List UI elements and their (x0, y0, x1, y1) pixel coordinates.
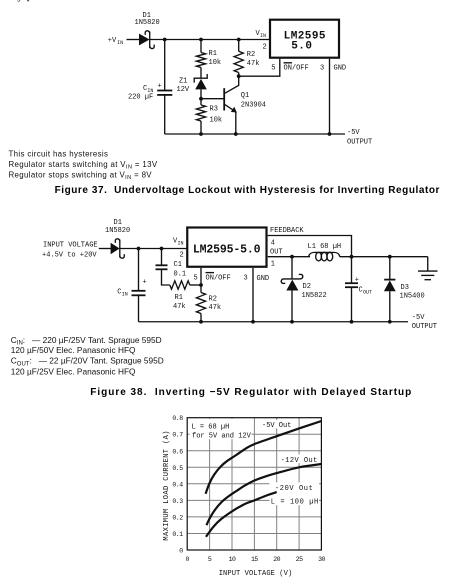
node Z1/R3/base junction (199, 97, 203, 101)
svg-text:-5V: -5V (347, 129, 360, 137)
transistor Q1 2N3904 (224, 76, 239, 134)
svg-text:1N5820: 1N5820 (105, 227, 130, 235)
wire CIN top lead (138, 249, 140, 291)
diode D3 1N5400 (384, 257, 396, 322)
svg-text:INPUT VOLTAGE: INPUT VOLTAGE (43, 241, 98, 249)
curve -20V Out (206, 492, 277, 537)
svg-text:ON/OFF: ON/OFF (284, 65, 309, 73)
node junction CIN top (163, 38, 167, 42)
wire C1 top lead (161, 249, 163, 266)
wire GND pin to bottom rail (252, 268, 254, 322)
node +VIN input label (108, 37, 123, 46)
wire C1 to R1 (162, 269, 170, 285)
wire bottom rail fig38 (139, 321, 409, 323)
svg-text:MAXIMUM LOAD CURRENT (A): MAXIMUM LOAD CURRENT (A) (163, 430, 171, 540)
wire base of Q1 (201, 98, 224, 100)
svg-text:1N5400: 1N5400 (400, 292, 425, 300)
svg-text:-5V Out: -5V Out (262, 422, 291, 430)
svg-text:L = 68 µH: L = 68 µH (192, 424, 230, 432)
capacitor CIN plates (157, 91, 172, 95)
svg-text:30: 30 (318, 556, 325, 563)
node D3 rail junction (388, 320, 392, 324)
svg-text:INPUT VOLTAGE (V): INPUT VOLTAGE (V) (219, 570, 293, 578)
diode D2 1N5822 schottky (281, 257, 303, 322)
svg-text:D3: D3 (401, 284, 409, 292)
node D2 rail junction (290, 320, 294, 324)
label COUT (359, 286, 373, 295)
inductor L1 68uH (309, 252, 340, 261)
op-amp U1 regulator LM2595 box (270, 20, 339, 58)
resistor R2 47k (234, 51, 243, 72)
svg-text:OUTPUT: OUTPUT (347, 139, 372, 147)
ground symbol (418, 257, 438, 280)
wire L1 to ground arm (340, 256, 428, 258)
clipped text remnant at top edge (0, 0, 29, 2)
svg-text:OUT: OUT (363, 289, 372, 295)
wire D1 to U2 VIN (120, 248, 187, 250)
svg-text:LM2595-5.0: LM2595-5.0 (193, 244, 261, 257)
node R1/R2/pin5 junction (199, 283, 203, 287)
svg-text:R2: R2 (209, 295, 217, 303)
svg-text:10k: 10k (209, 59, 222, 67)
svg-text:4: 4 (271, 239, 275, 247)
svg-text:15: 15 (251, 556, 258, 563)
capacitor C1 plates (156, 265, 168, 269)
svg-text:2N3904: 2N3904 (241, 102, 266, 110)
svg-text:25: 25 (296, 556, 303, 563)
legend L = 68 uH (192, 424, 252, 441)
wire top rail D1 to U1 (150, 39, 270, 41)
graph x axis labels (185, 556, 325, 563)
svg-text:47k: 47k (173, 303, 186, 311)
svg-text:0: 0 (185, 556, 189, 563)
svg-text:1N5822: 1N5822 (302, 292, 327, 300)
svg-text:-5V: -5V (412, 314, 425, 322)
svg-text:IN: IN (260, 33, 266, 39)
svg-text:Z1: Z1 (179, 77, 187, 85)
svg-text:0.5: 0.5 (172, 465, 183, 472)
wire CIN bottom lead (164, 95, 166, 134)
graph y axis labels (172, 415, 183, 554)
svg-text:3: 3 (244, 274, 248, 282)
label VIN pin (256, 30, 267, 39)
svg-text:47k: 47k (247, 60, 260, 68)
svg-text:0.8: 0.8 (172, 415, 183, 422)
wire feedback (268, 236, 352, 257)
node R3 rail junction (199, 132, 203, 136)
svg-text:+: + (355, 276, 359, 284)
svg-text:+V: +V (108, 37, 117, 45)
svg-text:10: 10 (229, 556, 236, 563)
svg-text:5.0: 5.0 (291, 41, 312, 53)
resistor R2 47k (196, 285, 205, 322)
svg-text:-12V Out: -12V Out (281, 457, 318, 465)
resistor R3 10k (196, 99, 205, 134)
svg-text:10k: 10k (210, 117, 223, 125)
svg-text:0.2: 0.2 (172, 514, 183, 521)
wire pin5 stub (200, 268, 202, 285)
svg-text:120 µF/50V Elec. Panasonic HFQ: 120 µF/50V Elec. Panasonic HFQ (11, 345, 136, 355)
svg-text:2: 2 (180, 252, 184, 260)
node D2 junction (290, 255, 294, 259)
wire bottom rail (165, 133, 345, 135)
label CIN (117, 289, 128, 298)
node R2 bottom junction (237, 74, 241, 78)
svg-text:Figure 37. Undervoltage Locko: Figure 37. Undervoltage Lockout with Hys… (55, 185, 440, 196)
wire R1 to Z1 (200, 68, 202, 79)
svg-text:FEEDBACK: FEEDBACK (270, 227, 304, 235)
svg-text:IN: IN (122, 292, 128, 298)
node COUT junction (350, 255, 354, 259)
svg-text:This circuit has hysteresis: This circuit has hysteresis (9, 150, 109, 159)
node junction R2 top (237, 38, 241, 42)
graph gridlines (187, 418, 321, 550)
resistor R1 10k (196, 53, 205, 68)
graph plot border (187, 418, 321, 550)
node GND rail junction (251, 320, 255, 324)
svg-text:R2: R2 (247, 51, 255, 59)
svg-text:GND: GND (334, 65, 347, 73)
svg-text:0.1: 0.1 (174, 270, 187, 278)
svg-text:switching: switching (0, 0, 21, 2)
svg-text:5: 5 (208, 556, 212, 563)
svg-text:0: 0 (179, 548, 183, 555)
wire R1 to node (190, 284, 201, 286)
svg-text:Q1: Q1 (241, 92, 249, 100)
wire GND pin to bottom rail (329, 59, 331, 134)
wire R1 top lead (200, 40, 202, 53)
diode D1 (1N5820 schottky) (111, 239, 125, 258)
svg-text:Regulator starts switching at: Regulator starts switching at VIN = 13V (9, 160, 158, 171)
svg-text:ON/OFF: ON/OFF (206, 274, 231, 282)
svg-text:2: 2 (263, 44, 267, 52)
wire R2 top lead (238, 40, 240, 52)
curve -5V Out (206, 421, 322, 494)
svg-text:0.4: 0.4 (172, 481, 183, 488)
svg-text:1N5820: 1N5820 (135, 19, 160, 27)
svg-text:IN: IN (178, 241, 184, 247)
wire OUT pin to L1 (268, 256, 310, 258)
svg-text:0.6: 0.6 (172, 448, 183, 455)
svg-text:47k: 47k (209, 304, 222, 312)
svg-text:+: + (143, 278, 147, 286)
svg-text:1: 1 (271, 261, 275, 269)
regulator U2 LM2595-5.0 box (187, 228, 266, 267)
svg-text:R1: R1 (175, 294, 183, 302)
node C1 junction (160, 247, 164, 251)
wire input to D1 (127, 39, 140, 41)
svg-text:+: + (158, 83, 162, 91)
legend white backgrounds (190, 419, 320, 505)
wire CIN bottom lead (138, 295, 140, 321)
wire CIN top lead (164, 40, 166, 91)
label CIN (143, 85, 153, 94)
diode D1 (1N5820 schottky) (139, 31, 154, 49)
svg-text:0.7: 0.7 (172, 432, 183, 439)
svg-text:R1: R1 (209, 50, 217, 58)
node GND rail junction (328, 132, 332, 136)
node junction R1 top (199, 38, 203, 42)
capacitor COUT (345, 257, 358, 322)
node emitter rail junction (234, 132, 238, 136)
node COUT rail junction (350, 320, 354, 324)
svg-text:L = 100 µH: L = 100 µH (271, 499, 319, 507)
svg-text:R3: R3 (210, 106, 218, 114)
svg-text:5: 5 (194, 274, 198, 282)
zener diode Z1 12V (194, 74, 207, 99)
svg-text:0.1: 0.1 (172, 531, 183, 538)
svg-text:0.3: 0.3 (172, 498, 183, 505)
svg-text:IN: IN (117, 40, 123, 46)
svg-text:3: 3 (320, 65, 324, 73)
label ON/OFF with overline (206, 273, 231, 283)
label ON/OFF with overline (284, 63, 309, 73)
svg-text:220 µF: 220 µF (128, 94, 153, 102)
svg-text:+4.5V to +20V: +4.5V to +20V (42, 251, 97, 259)
svg-text:D2: D2 (303, 283, 311, 291)
svg-text:20: 20 (273, 556, 280, 563)
svg-text:Figure 38. Inverting −5V Regu: Figure 38. Inverting −5V Regulator with … (90, 387, 412, 398)
svg-text:for 5V and 12V: for 5V and 12V (192, 432, 252, 440)
svg-text:L1 68 µH: L1 68 µH (308, 243, 342, 251)
svg-text:12V: 12V (177, 86, 190, 94)
wire R2 bottom to pin5 (239, 59, 280, 76)
capacitor CIN plates (132, 291, 146, 296)
curve -12V Out (207, 464, 322, 525)
node D3 junction (388, 255, 392, 259)
svg-text:-20V Out: -20V Out (275, 485, 313, 493)
svg-text:C1: C1 (174, 261, 182, 269)
svg-text:OUTPUT: OUTPUT (412, 323, 437, 331)
svg-text:OUT: OUT (270, 248, 283, 256)
node CIN junction (137, 247, 141, 251)
svg-text:GND: GND (257, 275, 270, 283)
svg-text:120 µF/25V Elec. Panasonic HFQ: 120 µF/25V Elec. Panasonic HFQ (11, 366, 136, 376)
svg-text:Regulator stops switching at V: Regulator stops switching at VIN = 8V (9, 170, 153, 181)
node R2 rail junction (199, 320, 203, 324)
label VIN pin (173, 238, 184, 247)
svg-text:5: 5 (271, 65, 275, 73)
wire input to D1 (99, 248, 111, 250)
resistor R1 47k horizontal (170, 281, 190, 289)
